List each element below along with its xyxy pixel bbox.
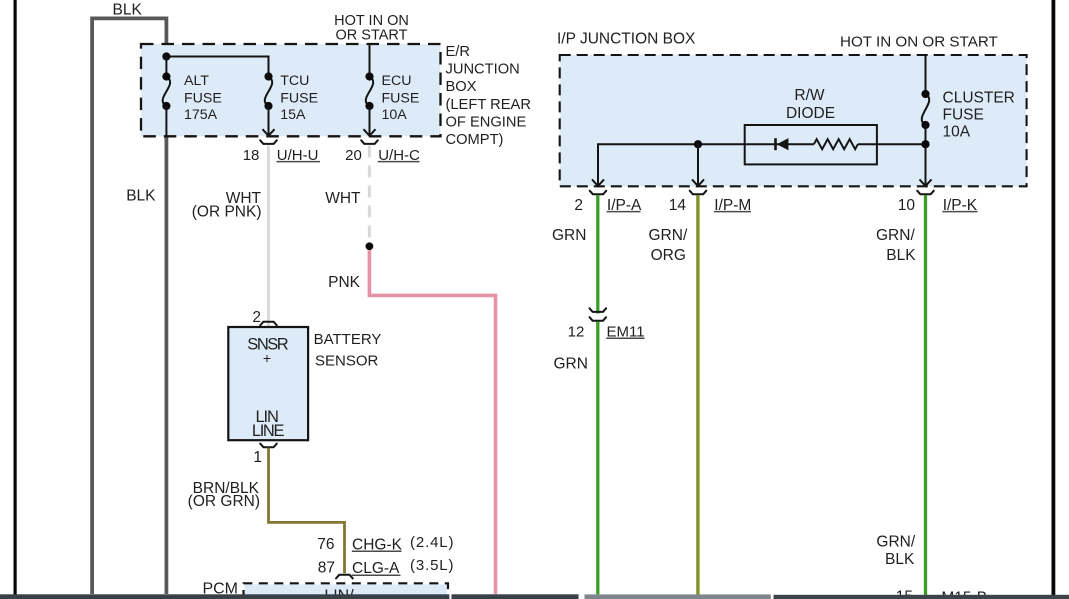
fuse TCU FUSE 15A (265, 77, 273, 107)
E/R junction box (dashed, blue fill) (141, 44, 441, 136)
svg-text:JUNCTION: JUNCTION (446, 62, 520, 78)
svg-text:HOT IN ON OR START: HOT IN ON OR START (840, 33, 998, 50)
svg-text:175A: 175A (184, 107, 218, 123)
svg-text:OF ENGINE: OF ENGINE (446, 114, 527, 130)
svg-text:OR START: OR START (336, 28, 408, 44)
svg-text:BLK: BLK (126, 188, 156, 205)
svg-text:87: 87 (318, 559, 335, 576)
svg-text:ECU: ECU (382, 73, 412, 89)
wire WHT solid (to battery sensor) (267, 146, 270, 327)
node junction dot at BLK/bus (162, 52, 170, 60)
wire GRN (I/P-A) lower (596, 322, 599, 595)
wire GRN/BLK (I/P-K) (924, 195, 927, 595)
svg-text:BLK: BLK (886, 247, 916, 264)
wire GRN (I/P-A) upper (596, 195, 599, 314)
arrow I/P-K (920, 179, 932, 186)
svg-text:ALT: ALT (184, 73, 209, 89)
svg-text:10: 10 (898, 197, 916, 214)
svg-text:BLK: BLK (885, 551, 915, 568)
svg-text:(LEFT REAR: (LEFT REAR (446, 97, 531, 113)
svg-text:(3.5L): (3.5L) (410, 557, 454, 574)
connector cup PCM entry (336, 575, 353, 579)
svg-text:+: + (263, 350, 271, 366)
svg-text:R/W: R/W (794, 87, 825, 104)
connector cup I/P-M pin 14 (690, 191, 707, 195)
svg-text:E/R: E/R (446, 44, 470, 60)
svg-text:20: 20 (345, 147, 362, 164)
connector cup U/H-C pin 20 (361, 140, 378, 144)
node dot on dashed wire (366, 242, 374, 250)
svg-text:CLUSTER: CLUSTER (943, 89, 1015, 106)
svg-text:(OR PNK): (OR PNK) (192, 204, 262, 221)
fuse CLUSTER FUSE 10A (925, 55, 927, 94)
svg-text:18: 18 (243, 147, 260, 164)
svg-text:LINE: LINE (252, 422, 285, 440)
connector EM11 (in-line, two cups) (590, 308, 607, 312)
svg-text:FUSE: FUSE (943, 107, 984, 124)
svg-text:TCU: TCU (280, 73, 309, 89)
svg-text:76: 76 (317, 536, 334, 553)
svg-text:FUSE: FUSE (184, 91, 222, 107)
svg-text:BOX: BOX (446, 79, 477, 95)
wire BLK top horizontal + left vertical (92, 18, 166, 594)
node dot I/P-M junction (694, 140, 702, 148)
left page border line (14, 0, 17, 595)
svg-text:DIODE: DIODE (786, 105, 835, 122)
connector cup I/P-K pin 10 (917, 191, 934, 195)
svg-text:GRN/: GRN/ (876, 533, 915, 550)
svg-text:ORG: ORG (651, 247, 686, 264)
svg-text:GRN/: GRN/ (649, 227, 688, 244)
connector cup battery sensor pin 2 (260, 322, 277, 326)
svg-text:2: 2 (252, 309, 261, 326)
svg-text:2: 2 (574, 197, 583, 214)
I/P junction box (dashed, blue fill) (560, 55, 1027, 186)
svg-text:I/P JUNCTION BOX: I/P JUNCTION BOX (557, 31, 696, 48)
resistor zigzag (814, 139, 858, 149)
svg-text:BATTERY: BATTERY (314, 331, 382, 348)
svg-text:FUSE: FUSE (280, 91, 318, 107)
connector cup battery sensor pin 1 (260, 444, 277, 448)
svg-text:14: 14 (669, 197, 687, 214)
svg-text:10A: 10A (943, 123, 971, 140)
svg-text:1: 1 (253, 449, 262, 466)
svg-text:FUSE: FUSE (382, 91, 420, 107)
diode symbol (cathode bar + triangle) (774, 138, 777, 150)
fuse ALT FUSE 175A (165, 57, 167, 77)
connector cup U/H-U pin 18 (260, 140, 277, 144)
svg-text:GRN/: GRN/ (876, 227, 915, 244)
svg-text:GRN: GRN (554, 355, 588, 372)
bottom bar dark left (0, 594, 449, 599)
fuse ECU FUSE 10A (369, 44, 371, 77)
wire BLK feed into E/R box (164, 17, 168, 57)
wire bus from ALT node to TCU fuse (166, 57, 268, 77)
battery sensor box (228, 327, 308, 440)
arrow I/P-A (592, 179, 604, 186)
node dot cluster/diode junction (921, 140, 929, 148)
svg-text:SENSOR: SENSOR (315, 352, 379, 369)
diode module rectangle (745, 125, 877, 164)
svg-text:BLK: BLK (113, 2, 143, 19)
svg-text:PNK: PNK (328, 274, 361, 291)
arrow I/P-M (692, 179, 704, 186)
right page border line (1052, 0, 1056, 596)
bottom bar dark right (774, 595, 1069, 599)
wire from I/P-A corner through diode to cluster node (598, 144, 814, 185)
svg-text:COMPT): COMPT) (446, 132, 504, 148)
svg-text:GRN: GRN (552, 227, 586, 244)
svg-text:HOT IN ON: HOT IN ON (334, 13, 409, 29)
svg-text:10A: 10A (382, 107, 408, 123)
wire BLK below E/R box (164, 136, 168, 594)
wire PNK (369, 250, 495, 594)
wire WHT dashed (368, 146, 371, 243)
bottom bar light middle (585, 594, 771, 599)
PCM box (dashed, cut off at bottom) (245, 584, 448, 599)
svg-text:15A: 15A (280, 107, 306, 123)
svg-text:WHT: WHT (325, 190, 361, 207)
svg-text:(OR GRN): (OR GRN) (188, 493, 260, 510)
wire I/P-M drop (697, 144, 699, 185)
wire BRN/BLK (269, 448, 345, 574)
wire GRN/ORG (I/P-M) (696, 195, 699, 595)
svg-text:(2.4L): (2.4L) (410, 534, 454, 551)
connector cup I/P-A pin 2 (590, 191, 607, 195)
svg-text:12: 12 (568, 323, 585, 340)
